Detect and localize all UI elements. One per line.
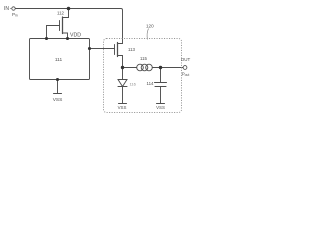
- svg-text:114: 114: [147, 81, 155, 86]
- svg-text:115: 115: [140, 56, 148, 61]
- svg-text:OUT: OUT: [181, 57, 191, 62]
- svg-text:VSS: VSS: [118, 105, 127, 110]
- svg-text:112: 112: [57, 11, 65, 16]
- svg-text:VSS: VSS: [53, 97, 63, 103]
- svg-text:IN: IN: [4, 6, 9, 12]
- svg-text:113: 113: [128, 47, 136, 52]
- svg-text:111: 111: [55, 57, 63, 63]
- svg-text:VDD: VDD: [70, 33, 81, 39]
- svg-text:116: 116: [130, 82, 137, 87]
- svg-text:Pout: Pout: [182, 72, 190, 78]
- svg-text:VSS: VSS: [156, 105, 165, 110]
- svg-text:Pin: Pin: [12, 12, 18, 18]
- svg-text:120: 120: [146, 24, 154, 29]
